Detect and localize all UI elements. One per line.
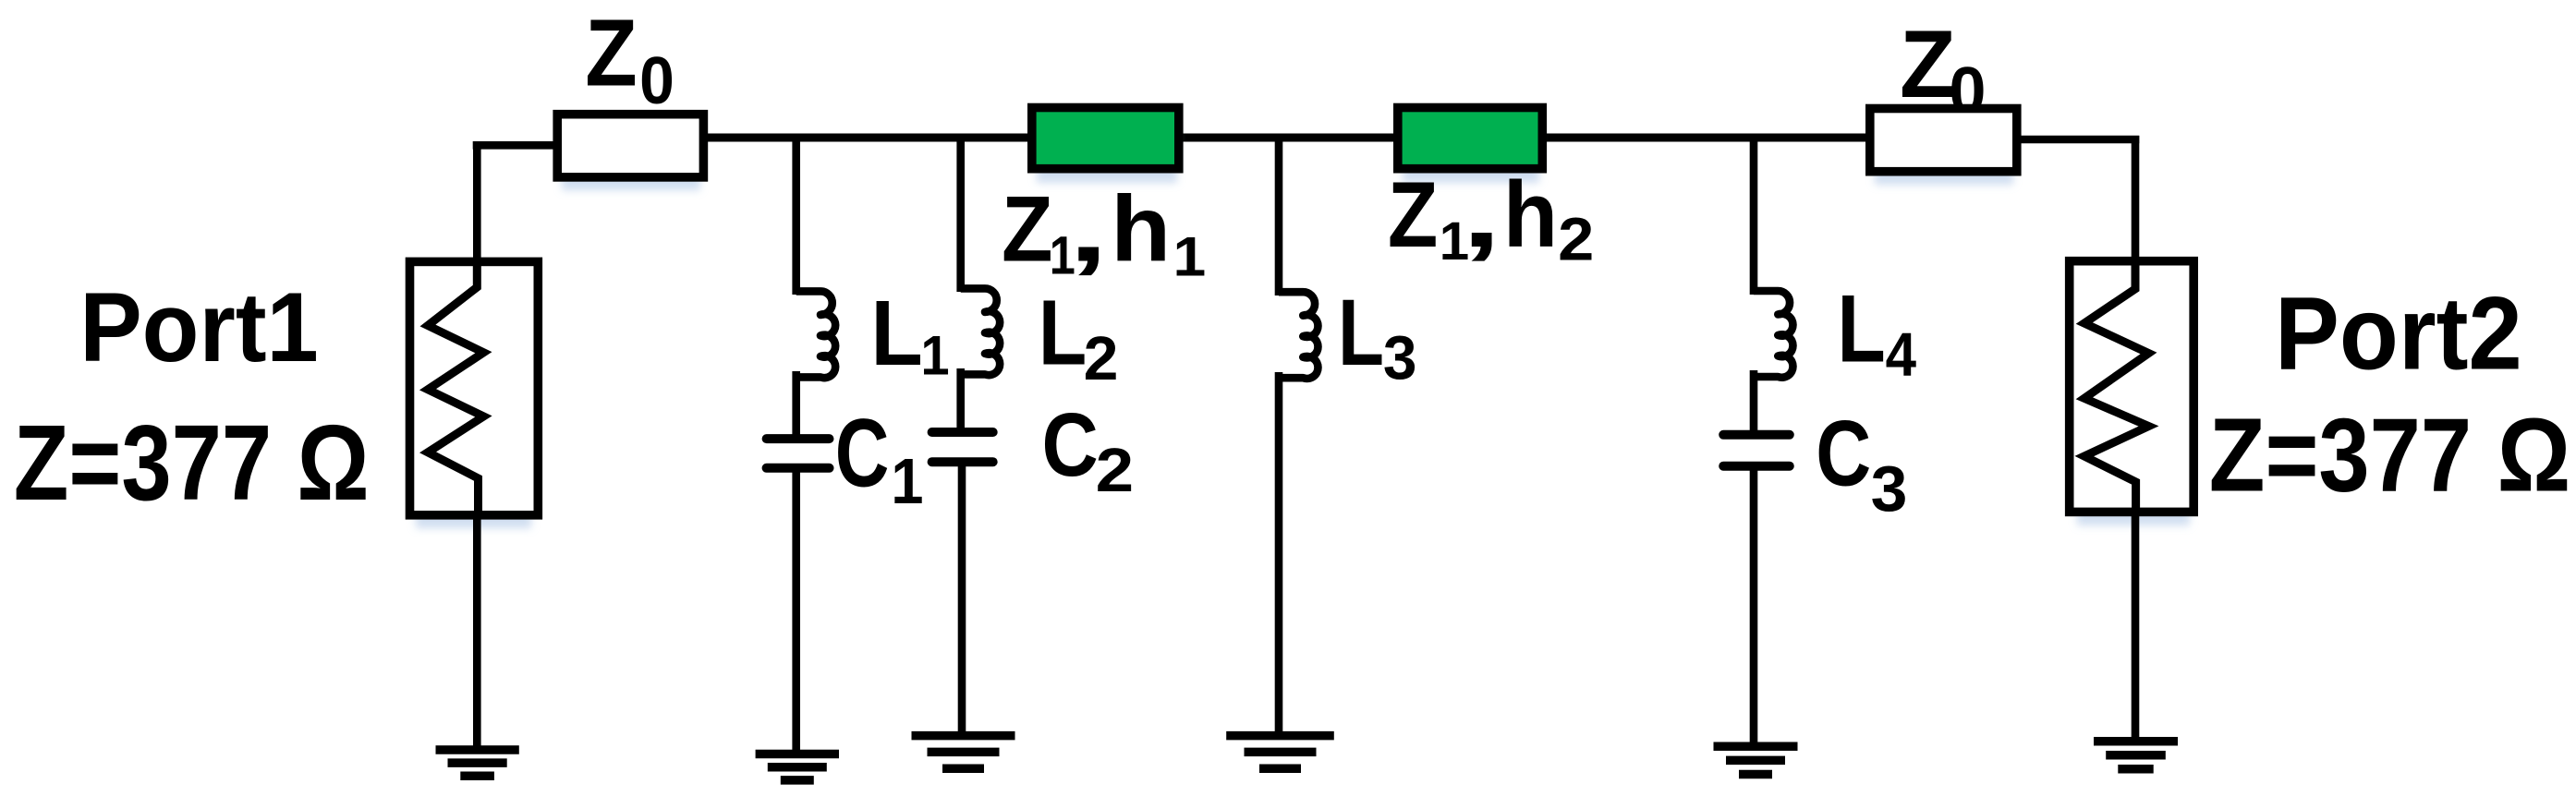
svg-text:4: 4: [1886, 320, 1916, 390]
transmission line section Z1,h1 (green box): [1032, 108, 1179, 169]
ground (branch L1/C1): [756, 754, 839, 780]
svg-text:C: C: [1042, 394, 1099, 495]
svg-text:C: C: [835, 400, 890, 508]
inductor L4: [1754, 291, 1792, 378]
svg-text:C: C: [1816, 403, 1871, 506]
ground (port 2): [2094, 742, 2178, 769]
capacitor C2: [932, 432, 993, 462]
svg-text:Z=377 Ω: Z=377 Ω: [14, 403, 370, 523]
svg-text:,: ,: [1462, 163, 1501, 267]
wire: shunt branch 3 down from bus: [1275, 138, 1283, 295]
wire: shunt branch 2 down from bus: [956, 138, 965, 292]
shadow of Z0 left box: [562, 129, 700, 190]
shadow of green TL box 2: [1403, 122, 1539, 183]
svg-text:2: 2: [1558, 205, 1594, 273]
ground (port 1): [436, 750, 519, 776]
svg-text:2: 2: [1084, 324, 1119, 393]
shadow of Port1 resistor box: [416, 277, 531, 528]
wire: L1 to C1: [792, 371, 800, 439]
wire: L4 to C3: [1750, 370, 1758, 435]
svg-text:Port1: Port1: [79, 271, 319, 382]
svg-text:Z=377 Ω: Z=377 Ω: [2209, 397, 2571, 513]
shadow of Port2 resistor box: [2077, 276, 2190, 525]
resistor zigzag Port2: [2084, 259, 2149, 515]
resistor zigzag Port1: [428, 259, 483, 517]
wire: Port2 resistor to ground: [2132, 512, 2140, 740]
ground (branch L3): [1226, 736, 1334, 769]
svg-text:L: L: [1338, 280, 1384, 385]
wire: C2 to ground: [958, 462, 966, 731]
svg-text:h: h: [1503, 163, 1558, 267]
svg-text:L: L: [1837, 276, 1885, 383]
shadow of green TL box 1: [1037, 122, 1177, 183]
svg-text:L: L: [870, 282, 922, 385]
resistor box Port1: [410, 261, 539, 514]
transmission line Z0 (right) box: [1870, 109, 2017, 172]
ground (branch L2/C2): [912, 736, 1015, 769]
wire: shunt branch 1 down from bus: [792, 138, 800, 295]
wire: vertical down to Port2 resistor: [2132, 136, 2140, 262]
transmission line Z0 (left) box: [557, 115, 703, 177]
wire: L3 to ground: [1275, 372, 1283, 731]
svg-text:2: 2: [1096, 436, 1135, 505]
wire: C3 to ground: [1750, 465, 1758, 744]
wire: L2 to C2: [956, 368, 965, 432]
capacitor C3: [1723, 435, 1790, 466]
svg-text:1: 1: [921, 325, 950, 387]
svg-text:Z: Z: [585, 0, 637, 106]
svg-text:Z: Z: [1900, 11, 1956, 118]
svg-text:3: 3: [1871, 452, 1908, 525]
wire: shunt branch 4 down from bus: [1750, 138, 1758, 295]
shadow of Z0 right box: [1875, 124, 2013, 185]
resistor box Port2: [2070, 261, 2194, 513]
wire: Port1 resistor to ground: [473, 513, 481, 748]
svg-text:0: 0: [639, 44, 674, 118]
wire: stub right of Z0 right box to corner: [2017, 136, 2139, 144]
svg-text:Z: Z: [1002, 178, 1053, 282]
svg-text:Port2: Port2: [2275, 276, 2522, 392]
svg-text:3: 3: [1383, 324, 1417, 393]
wire: C1 to ground: [792, 468, 800, 752]
svg-text:1: 1: [891, 445, 923, 517]
svg-text:,: ,: [1069, 178, 1109, 282]
wire: main bus: [703, 134, 1870, 142]
svg-text:L: L: [1039, 282, 1088, 385]
wire: stub left of Z0 left box: [473, 141, 557, 150]
inductor L1: [796, 291, 835, 378]
svg-text:h: h: [1111, 178, 1171, 282]
svg-text:1: 1: [1173, 226, 1207, 288]
capacitor C1: [767, 439, 830, 468]
inductor L2: [961, 288, 1000, 375]
wire: vertical from stub corner down to Port1 resistor: [473, 141, 481, 263]
svg-text:Z: Z: [1388, 163, 1438, 267]
transmission line section Z1,h2 (green box): [1398, 108, 1543, 169]
ground (branch L4/C3): [1714, 746, 1798, 774]
inductor L3: [1279, 292, 1318, 379]
